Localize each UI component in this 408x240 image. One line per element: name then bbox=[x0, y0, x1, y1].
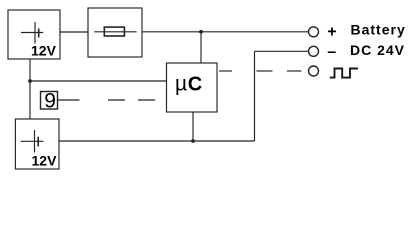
svg-text:–: – bbox=[327, 43, 336, 60]
svg-text:Battery: Battery bbox=[351, 22, 406, 38]
svg-text:µ: µ bbox=[175, 73, 187, 96]
svg-text:9: 9 bbox=[44, 89, 56, 112]
svg-text:12V: 12V bbox=[32, 153, 58, 169]
svg-text:12V: 12V bbox=[31, 43, 57, 59]
svg-text:DC 24V: DC 24V bbox=[350, 42, 405, 58]
svg-text:C: C bbox=[188, 74, 202, 96]
svg-text:+: + bbox=[327, 23, 336, 40]
